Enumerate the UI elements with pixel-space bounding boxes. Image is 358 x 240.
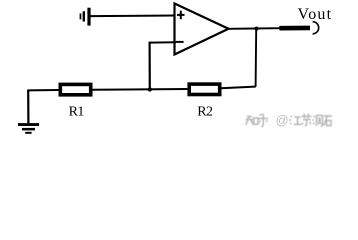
wire output to bus vertical [255,29,258,87]
junction dot on bottom bus [148,87,152,91]
svg-text:@: @ [276,113,289,128]
output terminal arc [313,22,319,34]
svg-text:Vout: Vout [298,6,333,23]
wire to inverting input [150,41,176,43]
thick output stub [279,26,310,31]
watermark zhihu [246,114,332,127]
junction dot on output [254,27,258,31]
ground (bottom-left) [18,123,39,134]
op-amp plus label [177,11,185,20]
op-amp U1 [175,4,229,55]
wire bus left segment [27,89,58,91]
resistor R1 body [60,84,90,94]
wire op-amp output [229,27,281,30]
resistor R2 body [189,84,220,94]
ground (top-left, rotated left) [80,8,91,26]
wire bus middle segment [93,88,188,91]
wire bus right segment [221,87,256,89]
wire feedback vertical left [149,42,151,90]
svg-text:R2: R2 [197,105,213,120]
wire to non-inverting input [90,15,175,18]
svg-text:R1: R1 [69,105,85,120]
op-amp minus label [176,41,184,43]
wire left vertical to ground [27,90,29,123]
